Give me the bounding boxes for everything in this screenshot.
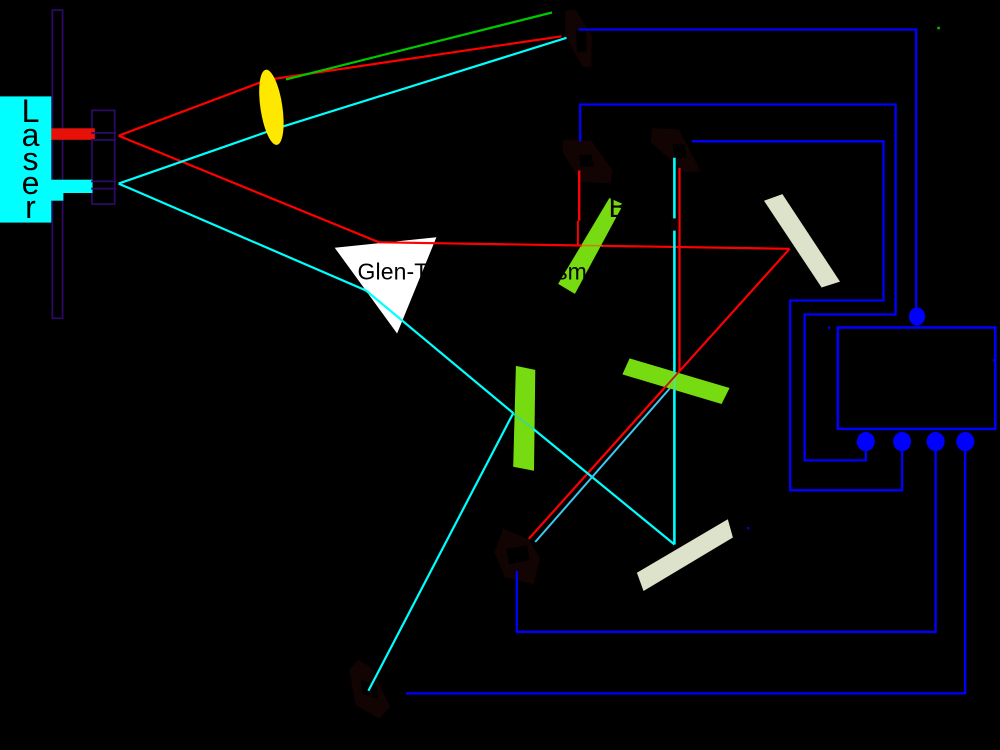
red branch BS1 to detector D2 lower — [577, 221, 579, 246]
red beam M1 to BS2 — [678, 249, 790, 373]
wire W1 from detector D1 to amplifier top pin — [579, 30, 917, 311]
stray blue notch on box right border — [993, 359, 995, 361]
laser output thick cyan beam — [51, 180, 93, 193]
cyan beam BS3 to mirror M2 — [533, 429, 674, 545]
amplifier top pin — [909, 308, 925, 326]
red branch BS2 to detector D3 — [678, 168, 680, 371]
amplifier pin 1 — [857, 432, 875, 451]
red beam to lens upper — [119, 36, 562, 135]
cyan beam to lens lower — [119, 38, 567, 184]
laser output cyan stub — [51, 193, 63, 201]
mirror M2 (pale slab) — [637, 519, 733, 591]
beamsplitter BS2 (green slab) — [622, 358, 729, 404]
mirror M1 (pale slab) — [764, 194, 840, 287]
chopper housing (purple outline) — [92, 110, 115, 204]
amplifier box (blue outline) — [838, 328, 996, 429]
chopper aperture A upper line (purple) — [91, 132, 116, 134]
svg-text:B: B — [609, 192, 628, 224]
cyan beam M2 vertical lower — [673, 390, 676, 545]
stray blue dot near box — [828, 327, 830, 329]
cyan vertical inside BS2 (attenuated) — [673, 372, 675, 390]
green beam from lens to detector D1 — [286, 13, 552, 80]
optical rail / mount bar (purple outline) — [52, 10, 62, 318]
chopper aperture A lower line (purple) — [91, 139, 116, 141]
cyan branch BS2 to detector D5 — [535, 389, 670, 543]
red beam to prism — [119, 136, 582, 246]
red branch BS1 to detector D2 upper — [578, 171, 580, 221]
cyan beam inside BS3 (attenuated) — [514, 414, 534, 429]
wire W4 from pin 3 to detector D5 — [517, 442, 936, 632]
beamsplitter BS3 (green slab) — [513, 366, 535, 471]
chopper aperture B upper line (purple) — [91, 180, 116, 182]
red beam BS1 to mirror M1 — [602, 246, 790, 249]
red diagonal inside BS2 (attenuated) — [665, 373, 678, 387]
laser output thick red beam — [51, 128, 95, 140]
lens (yellow ellipse) — [255, 68, 288, 146]
stray blue dot near M2 — [747, 527, 749, 529]
chopper aperture B lower line (purple) — [91, 188, 116, 190]
hidden label letter gap on cyan vertical — [671, 218, 679, 230]
cyan beam to prism and BS3 — [119, 184, 514, 414]
cyan branch BS3 to detector D4 — [368, 413, 513, 691]
stray green dot top right — [937, 27, 940, 30]
wire W3 from detector D3 to pin 2 — [692, 141, 902, 490]
laser housing box (cyan) — [0, 96, 51, 222]
red beam BS2 to detector D5 — [529, 387, 665, 539]
svg-text:Glen-Thompson prism: Glen-Thompson prism — [358, 259, 587, 285]
wire W2 from detector D2 to pin 1 — [580, 105, 895, 461]
beamsplitter BS1 (green slab) — [558, 198, 623, 294]
detector D2 (dark) — [562, 139, 612, 183]
amplifier pin 3 — [927, 432, 945, 451]
red horizontal inside BS1 (attenuated, orange) — [582, 244, 603, 246]
svg-text:r: r — [25, 189, 36, 225]
detector D3 (dark) — [651, 128, 701, 172]
detector D5 (dark) — [494, 528, 540, 584]
amplifier pin 2 — [893, 432, 911, 451]
detector D4 (dark) — [349, 660, 390, 719]
wire W5 from pin 4 to detector D4 — [406, 442, 965, 693]
amplifier pin 4 — [956, 432, 974, 451]
Glen-Thompson prism (white triangle) — [335, 237, 437, 333]
cyan beam M2 vertical to detector D3 upper — [673, 158, 676, 372]
detector D1 (dark) — [565, 10, 592, 67]
